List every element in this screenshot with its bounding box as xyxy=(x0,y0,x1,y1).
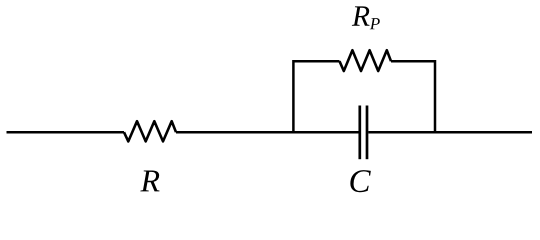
wire: branch left vertical and top-left wire xyxy=(293,61,339,133)
capacitor C right plate xyxy=(366,106,369,160)
wire: main right segment from capacitor xyxy=(368,131,532,134)
label C xyxy=(350,170,370,192)
label RP subscript P xyxy=(370,18,380,29)
wire: main middle segment to capacitor left plate xyxy=(176,131,359,134)
label R xyxy=(140,170,159,191)
label RP main R xyxy=(352,6,370,25)
wire: branch top-right wire and right vertical xyxy=(391,61,435,133)
resistor R (zigzag) xyxy=(124,121,176,141)
resistor RP (zigzag) xyxy=(340,50,392,71)
wire: main left segment xyxy=(7,131,125,134)
capacitor C left plate xyxy=(358,106,361,160)
